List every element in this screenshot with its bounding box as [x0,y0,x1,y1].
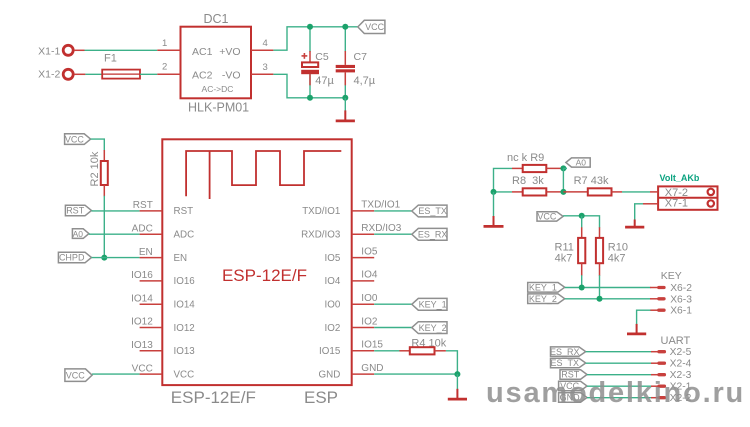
wire GND to X2-2 [587,397,652,399]
wire C5 bottom [309,73,311,98]
svg-text:X2-5: X2-5 [670,347,692,358]
wire VCC flag to R2 [91,139,105,151]
ground below X6-1 [627,324,646,334]
pin EN left [139,247,187,264]
svg-text:4: 4 [263,38,268,49]
wire F1 to DC1 pin 2 [140,73,157,75]
pin VCC left [132,363,195,380]
vcc flag mid [537,212,563,222]
pin IO5 right [325,246,378,264]
wire R7 to X7-2 [622,191,650,193]
pin IO4 right [325,270,378,288]
svg-text:RXD/IO3: RXD/IO3 [361,223,401,234]
pin IO13 left [131,340,195,357]
resistor R2 10k [89,150,108,197]
wire EN [92,257,140,259]
svg-text:ES_RX: ES_RX [550,347,580,357]
vcc flag uart [559,381,587,391]
wire R8 left [494,191,513,193]
ground below GND [448,389,467,399]
wire RST [92,210,140,212]
svg-text:1: 1 [162,38,167,49]
svg-text:4k7: 4k7 [608,252,626,264]
svg-text:2: 2 [162,62,167,73]
svg-text:F1: F1 [104,53,117,65]
svg-text:IO14: IO14 [131,293,153,304]
svg-text:TXD/IO1: TXD/IO1 [361,200,400,211]
es_tx flag [412,205,447,217]
svg-text:IO0: IO0 [361,293,378,304]
ground below C7 [336,110,355,121]
pin X6-2 [650,283,692,294]
svg-text:-VO: -VO [222,69,241,81]
wire C7 top [344,27,346,52]
es_rx flag [412,228,448,240]
pin X6-1 [650,306,692,317]
wire ES_RX to X2-5 [586,351,652,353]
wire R9 left down [494,168,513,192]
junction C7 top rail [342,24,348,30]
svg-text:IO12: IO12 [174,323,195,334]
svg-text:HLK-PM01: HLK-PM01 [188,100,249,114]
pin IO14 left [131,293,195,310]
wire VCC to R11 R10 [563,216,599,228]
pin X2-4 [651,359,692,370]
junction KEY_2 R10 [597,296,603,302]
svg-text:X7-1: X7-1 [665,198,688,210]
junction C5 top rail [307,24,313,30]
wire GND rail from pin 3 [273,74,345,98]
svg-text:4k7: 4k7 [555,252,573,264]
resistor R8 [512,188,563,195]
svg-text:KEY: KEY [661,270,682,282]
svg-text:ES_TX: ES_TX [418,206,447,216]
junction R2 EN [101,255,107,261]
capacitor C5 47u polarized [301,51,334,87]
wire R4 to GND net [446,351,458,374]
wire X1-2 to fuse F1 [85,73,102,75]
svg-text:usamodelkino.ru: usamodelkino.ru [486,377,745,409]
svg-text:X6-1: X6-1 [670,306,692,317]
svg-text:IO0: IO0 [325,300,341,311]
pin IO2 right [325,316,378,334]
svg-text:ES_TX: ES_TX [550,358,579,368]
svg-text:ES_RX: ES_RX [418,230,448,240]
wire KEY_2 to X6-3 [565,298,651,300]
svg-text:+VO: +VO [219,46,240,58]
svg-text:A0: A0 [576,158,587,168]
wire X7-1 to ground [635,204,643,220]
svg-text:IO15: IO15 [319,346,341,357]
svg-text:ESP: ESP [304,388,338,407]
pin X2-2 [651,393,692,404]
svg-text:RST: RST [66,206,85,216]
svg-text:AC2: AC2 [192,69,213,81]
svg-text:IO15: IO15 [361,340,383,351]
svg-text:VCC: VCC [537,212,557,222]
wire GND pin to ground [374,373,457,375]
antenna meander [186,151,341,196]
chpd flag [58,252,91,263]
svg-text:KEY_2: KEY_2 [529,294,557,304]
wire TXD to ES_TX [374,210,412,212]
junction VCC R11 [579,213,585,219]
key_2 flag right of IO2 [412,322,447,334]
wire ES_TX to X2-4 [586,362,652,364]
junction R9 right [560,165,566,171]
capacitor C7 4.7u [336,51,376,87]
junction GND [454,371,460,377]
wire X1-1 to DC1 pin 1 [85,49,158,51]
wire RST to X2-3 [587,374,652,376]
pin RXD/IO3 right [301,223,402,241]
svg-text:UART: UART [661,335,691,347]
svg-text:3: 3 [263,62,268,73]
vcc flag top [358,20,385,33]
svg-text:ADC: ADC [132,223,153,234]
resistor R11 4k7 [555,227,586,275]
key_1 flag [528,283,565,293]
wire C7 to ground [344,98,346,111]
wire C5 top [309,27,311,52]
svg-text:VCC: VCC [365,22,385,32]
svg-text:R7 43k: R7 43k [574,175,609,187]
svg-text:RST: RST [133,200,153,211]
gnd flag uart [559,393,587,403]
ground below R8 [484,216,504,226]
wire C7 bottom [344,73,346,98]
wire IO2 to KEY_2 [374,327,412,329]
pin IO0 right [325,293,378,311]
key_1 flag right of IO0 [412,298,447,310]
svg-text:A0: A0 [73,229,84,239]
pin X2-1 [651,382,692,393]
ground below X7-1 [625,220,644,228]
rst flag [65,205,91,216]
svg-text:nc k R9: nc k R9 [507,152,544,164]
svg-text:4,7µ: 4,7µ [354,75,376,87]
resistor R4 10k [399,338,446,355]
svg-text:VCC: VCC [132,363,153,374]
svg-text:Volt_AKb: Volt_AKb [660,173,700,183]
svg-text:X1-2: X1-2 [38,69,60,81]
connector X7 [658,186,717,209]
svg-text:DC1: DC1 [203,12,228,26]
es_rx flag uart [550,347,586,357]
svg-text:X6-3: X6-3 [670,294,692,305]
vcc flag bottom left [65,369,92,382]
svg-text:X6-2: X6-2 [670,283,692,294]
DC1 pin 3 [251,62,273,74]
junction R8 right [560,189,566,195]
svg-text:VCC: VCC [174,369,195,380]
pin RST left [133,200,193,217]
wire IO0 to KEY_1 [374,303,412,305]
svg-text:IO4: IO4 [325,276,341,287]
svg-text:47µ: 47µ [315,75,334,87]
DC1 pin 2 [157,62,180,75]
wire KEY_1 to X6-2 [565,287,651,289]
es_tx flag uart [550,358,585,368]
svg-text:RST: RST [174,206,194,217]
svg-text:GND: GND [361,363,383,374]
svg-text:R8 3k: R8 3k [512,175,544,187]
svg-text:IO13: IO13 [174,346,196,357]
svg-text:KEY_2: KEY_2 [419,323,447,333]
wire down to ground [456,374,458,389]
svg-text:CHPD: CHPD [59,253,85,263]
svg-text:GND: GND [319,369,341,380]
wire X6-1 to ground [637,310,651,324]
wire RXD to ES_RX [374,233,412,235]
vcc flag for R2 [65,134,91,145]
pin X2-3 [651,370,692,381]
wire R11 to KEY_1 net [581,275,583,287]
a0 flag right [566,158,590,168]
svg-text:IO5: IO5 [325,253,341,264]
svg-text:IO16: IO16 [131,270,153,281]
connector pad X1-1 [38,45,84,57]
svg-text:KEY_1: KEY_1 [419,300,447,310]
svg-text:KEY_1: KEY_1 [529,283,557,293]
wire R11 top [581,216,583,228]
DC1 pin 4 [251,38,273,50]
wire ADC [89,233,140,235]
wire to A0 flag [563,167,567,169]
svg-text:ESP-12E/F: ESP-12E/F [222,266,307,285]
wire IO15 to R4 [374,350,400,352]
wire VCC rail from pin 4 [273,27,357,50]
svg-text:IO13: IO13 [131,340,153,351]
ic ESP-12E/F module body [162,139,351,385]
svg-text:ESP-12E/F: ESP-12E/F [171,388,256,407]
rst flag uart [560,370,587,380]
pin IO16 left [131,270,195,287]
svg-text:IO12: IO12 [131,317,153,328]
svg-text:AC1: AC1 [192,46,213,58]
lead X7-1 [643,203,658,205]
svg-text:VCC: VCC [65,134,85,144]
DC1 pin 1 [157,38,180,50]
junction C5 bottom rail [307,95,313,101]
fuse F1 [102,53,140,79]
svg-text:ADC: ADC [174,230,195,241]
svg-text:VCC: VCC [66,370,86,380]
svg-text:AC->DC: AC->DC [202,84,234,94]
svg-text:IO4: IO4 [361,270,378,281]
svg-text:X2-4: X2-4 [670,359,692,370]
wire junction to ground [493,192,495,217]
wire VCC to X2-1 [587,385,652,387]
pin IO15 right [319,340,383,358]
svg-text:IO16: IO16 [174,276,196,287]
svg-text:IO14: IO14 [174,300,196,311]
pin IO12 left [131,317,195,334]
svg-text:C5: C5 [315,51,329,63]
pin TXD/IO1 right [302,200,400,218]
svg-text:EN: EN [174,253,188,264]
svg-text:IO2: IO2 [361,316,378,327]
pin GND right [319,363,384,381]
connector pad X1-2 [38,69,85,81]
wire R10 to KEY_2 net [599,275,601,299]
key_2 flag [528,294,565,304]
power module DC1 HLK-PM01 [181,12,252,114]
a0 flag left [72,229,89,239]
pin ADC left [132,223,195,240]
svg-text:R2 10k: R2 10k [89,151,101,186]
svg-text:X1-1: X1-1 [38,46,60,58]
svg-text:IO5: IO5 [361,246,378,257]
lead X7-2 [650,191,658,193]
svg-text:RXD/IO3: RXD/IO3 [301,230,341,241]
resistor R10 4k7 [596,227,628,275]
wire R2 to EN net [103,196,105,258]
antenna feed line [209,151,211,199]
junction R8 left [491,189,497,195]
svg-text:C7: C7 [354,51,368,63]
svg-text:TXD/IO1: TXD/IO1 [302,206,340,217]
pin X2-5 [651,347,692,358]
junction C7 bottom rail [342,95,348,101]
svg-text:IO2: IO2 [325,323,341,334]
wire R9 right to R8 right [562,168,564,192]
wire VCC pin [92,373,140,375]
resistor R7 [563,188,622,195]
junction KEY_1 R11 [579,285,585,291]
pin X6-3 [650,294,692,305]
resistor R9 [512,165,563,172]
svg-text:EN: EN [139,247,153,258]
